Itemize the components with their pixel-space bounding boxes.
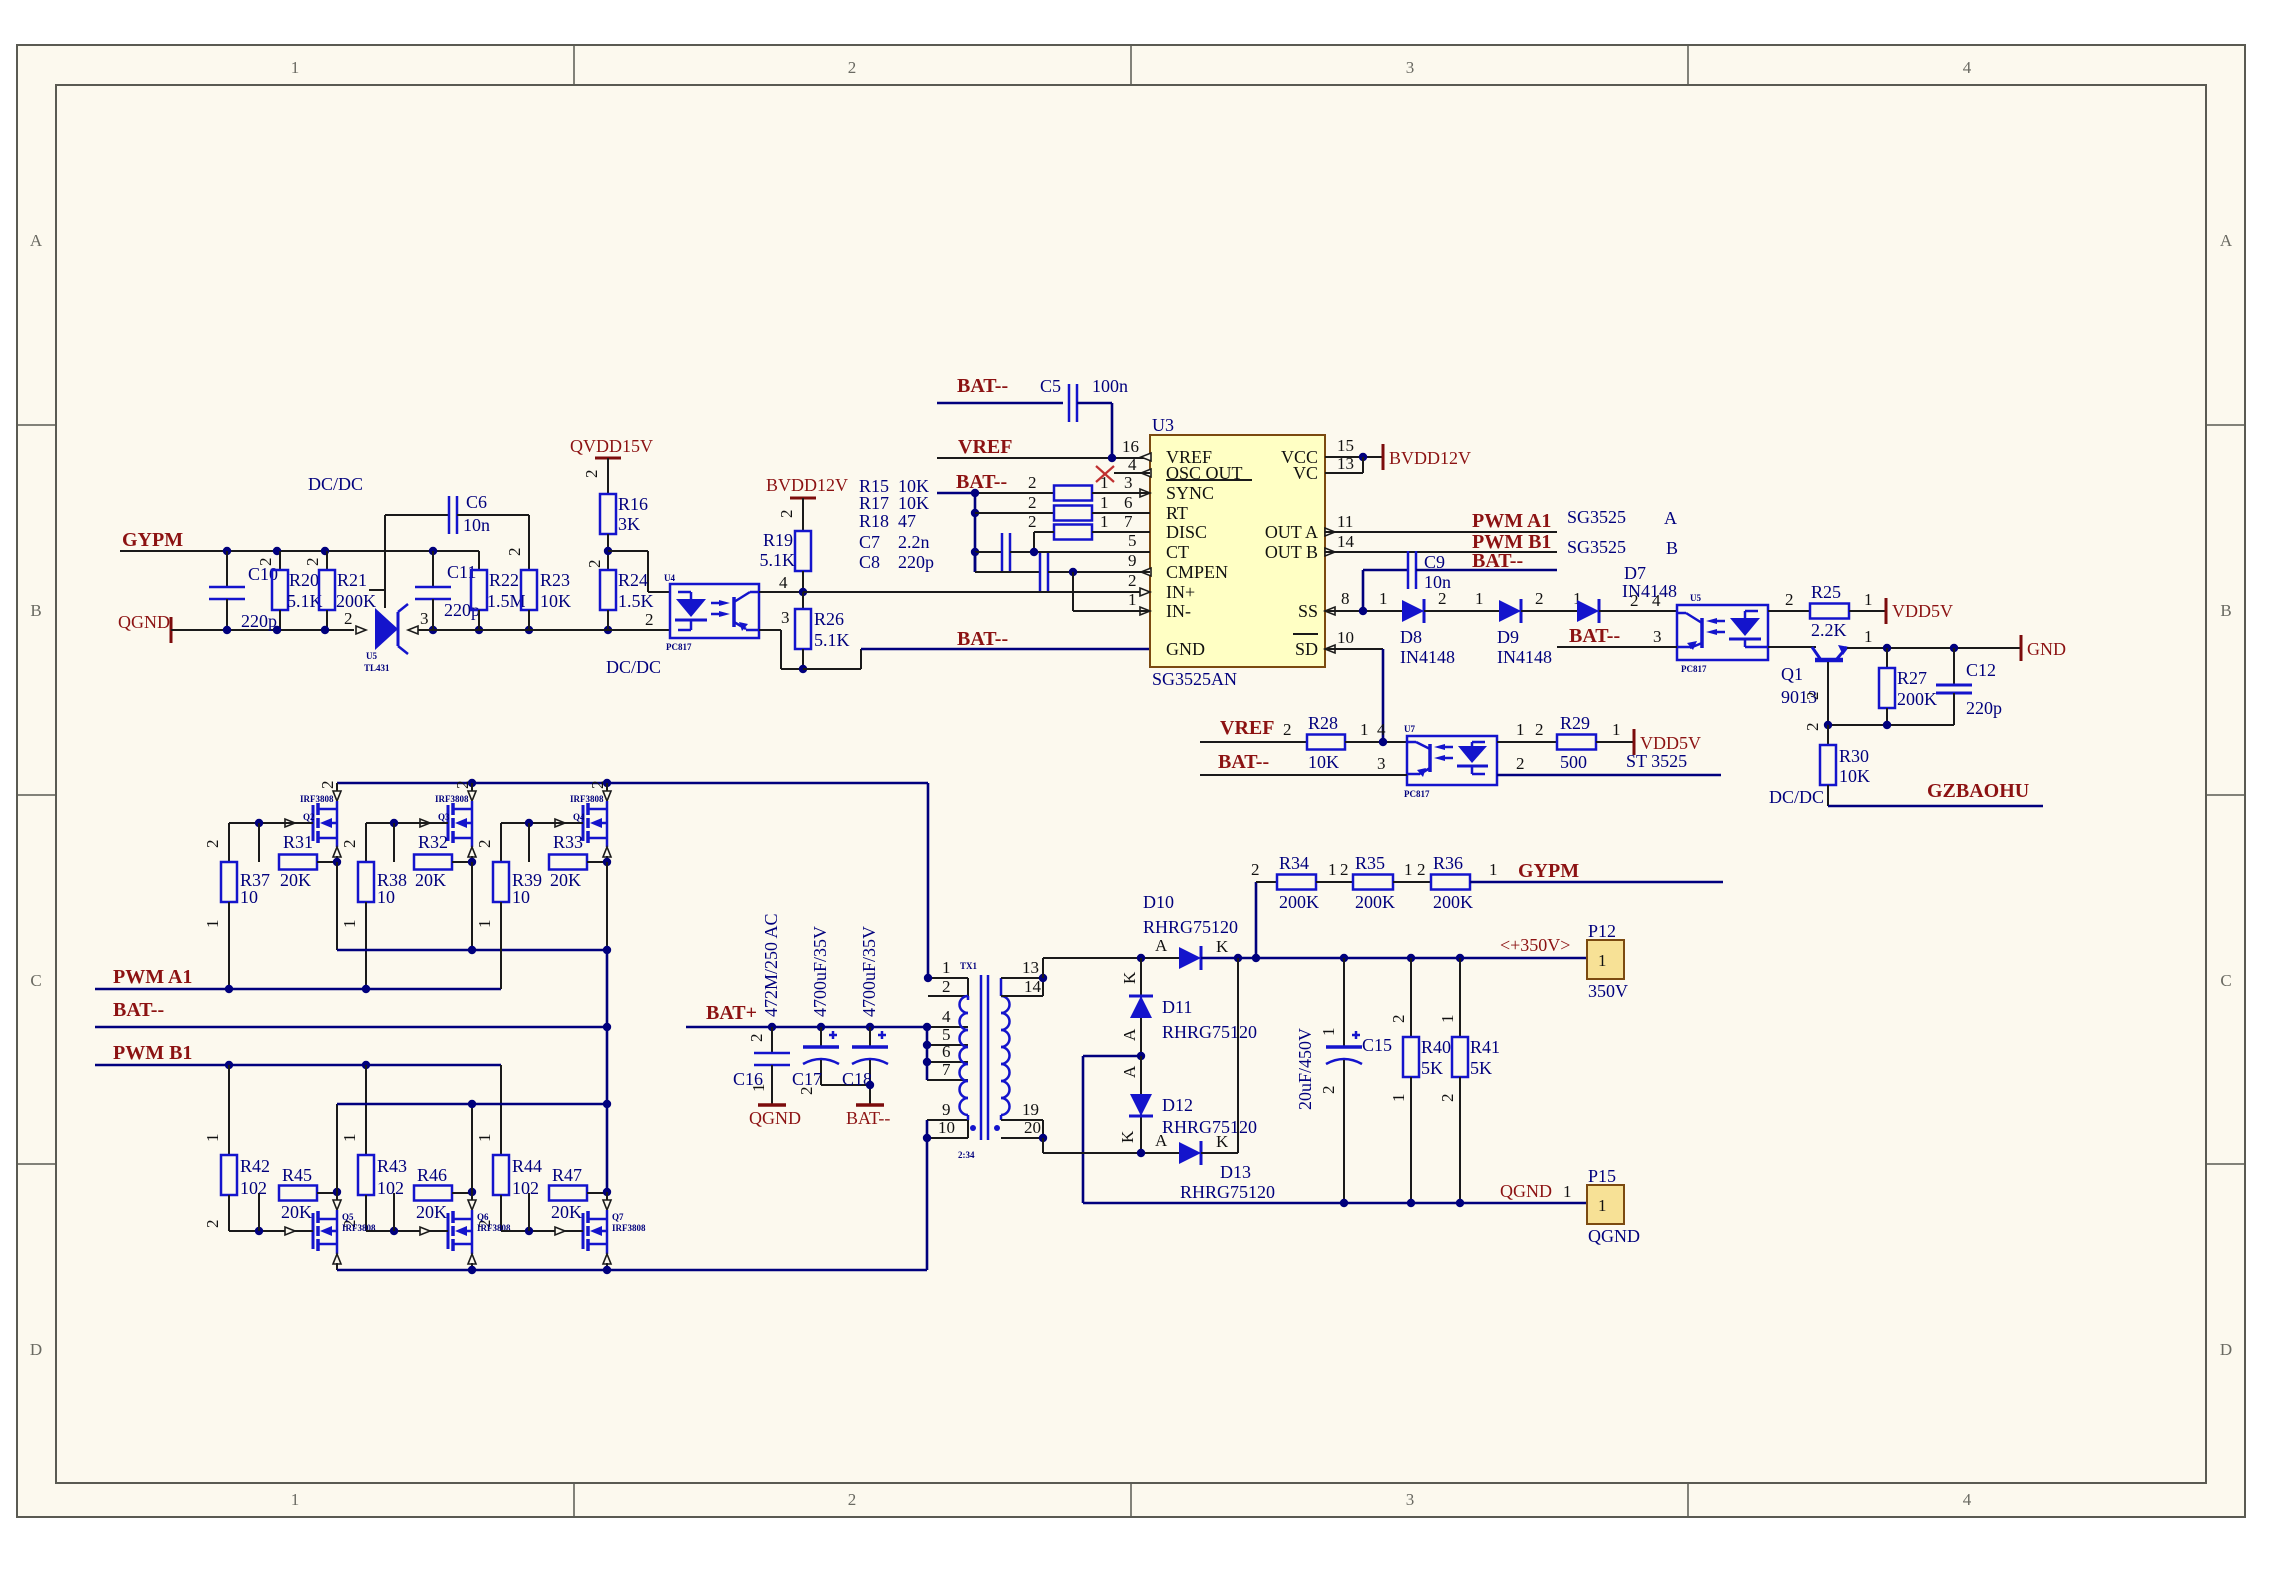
svg-text:13: 13: [1022, 958, 1039, 977]
svg-text:2: 2: [942, 977, 951, 996]
svg-text:1: 1: [1598, 1196, 1607, 1215]
junction dot R16/R24 node: [604, 547, 612, 555]
resistor R29: [1557, 713, 1596, 772]
svg-text:16: 16: [1122, 437, 1139, 456]
svg-text:IRF3808: IRF3808: [300, 794, 334, 804]
svg-text:QGND: QGND: [1588, 1226, 1640, 1246]
optocoupler U5 PC817 (mirrored): [1677, 593, 1768, 674]
wire BAT-- to U3 GND: [803, 649, 1150, 669]
svg-text:20: 20: [1024, 1118, 1041, 1137]
svg-text:Q1: Q1: [1781, 664, 1803, 684]
svg-text:2: 2: [1803, 723, 1822, 732]
resistor R17: [1054, 506, 1092, 521]
svg-text:2: 2: [1417, 860, 1426, 879]
resistor R26: [795, 592, 850, 669]
resistor R27: [1879, 648, 1937, 725]
svg-text:2: 2: [344, 609, 353, 628]
diode D7 IN4148: [1577, 563, 1677, 623]
wire R16 node to opto U4 anode: [585, 551, 670, 592]
svg-text:2: 2: [340, 840, 359, 849]
svg-text:1: 1: [291, 1490, 300, 1509]
resistor R38: [340, 823, 407, 989]
svg-text:20uF/450V: 20uF/450V: [1295, 1028, 1315, 1110]
net label BAT+: [706, 1002, 757, 1024]
svg-text:VREF: VREF: [1220, 717, 1274, 739]
svg-text:D13: D13: [1220, 1162, 1251, 1182]
svg-text:B: B: [30, 601, 41, 620]
wire R34-R35: [1316, 860, 1353, 882]
text DC/DC (upper): [308, 474, 363, 494]
svg-text:5.1K: 5.1K: [760, 550, 796, 570]
svg-text:IN4148: IN4148: [1497, 647, 1552, 667]
svg-text:BAT--: BAT--: [113, 999, 164, 1021]
svg-text:5.1K: 5.1K: [814, 630, 850, 650]
power port VDD5V (R25): [1886, 598, 1953, 624]
svg-text:2.2K: 2.2K: [1811, 620, 1847, 640]
svg-text:PWM A1: PWM A1: [113, 966, 192, 988]
wire BAT-- vertical bus: [603, 950, 611, 1192]
svg-text:200K: 200K: [336, 591, 376, 611]
svg-text:VDD5V: VDD5V: [1892, 601, 1953, 621]
svg-text:<+350V>: <+350V>: [1500, 935, 1570, 955]
net label PWM B1: [113, 1042, 192, 1064]
svg-text:10K: 10K: [1839, 766, 1870, 786]
svg-text:P12: P12: [1588, 921, 1616, 941]
svg-text:SD: SD: [1295, 639, 1318, 659]
BAT-- bus vertical: [971, 489, 979, 572]
svg-text:BAT--: BAT--: [957, 375, 1008, 397]
svg-text:R28: R28: [1308, 713, 1338, 733]
power port BVDD12V (R19): [766, 475, 848, 531]
svg-text:7: 7: [1124, 512, 1133, 531]
wire drain rail (top bank): [337, 779, 928, 978]
wire CMPEN to IN-: [1073, 571, 1150, 611]
svg-text:D: D: [2220, 1340, 2232, 1359]
transistor Q2 IRF3808: [285, 781, 341, 863]
svg-text:R43: R43: [377, 1156, 407, 1176]
gate wire Q6: [366, 1227, 430, 1235]
svg-text:R24: R24: [618, 570, 648, 590]
svg-text:TX1: TX1: [960, 961, 978, 971]
net label BAT-- (C5): [957, 375, 1008, 397]
svg-text:A: A: [1120, 1065, 1139, 1078]
svg-text:5K: 5K: [1470, 1058, 1492, 1078]
svg-text:2: 2: [797, 1087, 816, 1096]
svg-text:R35: R35: [1355, 853, 1385, 873]
svg-text:4: 4: [942, 1007, 951, 1026]
svg-text:BVDD12V: BVDD12V: [1389, 448, 1471, 468]
svg-text:TL431: TL431: [364, 663, 390, 673]
svg-text:1: 1: [340, 1134, 359, 1143]
shunt regulator U5 TL431: [344, 515, 429, 673]
svg-text:200K: 200K: [1279, 892, 1319, 912]
svg-text:1: 1: [1360, 720, 1369, 739]
svg-text:2: 2: [318, 781, 337, 790]
wire PWM A1 row: [95, 902, 501, 993]
svg-text:K: K: [1120, 971, 1139, 984]
svg-text:R40: R40: [1421, 1037, 1451, 1057]
wire BAT-- row (left): [95, 1023, 611, 1031]
svg-text:3: 3: [420, 609, 429, 628]
svg-text:A: A: [1120, 1028, 1139, 1041]
svg-text:10n: 10n: [463, 515, 490, 535]
svg-text:1: 1: [1404, 860, 1413, 879]
svg-text:1: 1: [749, 1084, 768, 1093]
svg-text:1.5K: 1.5K: [618, 591, 654, 611]
gate wire Q2: [229, 819, 295, 827]
svg-text:D11: D11: [1162, 997, 1192, 1017]
svg-text:R45: R45: [282, 1165, 312, 1185]
svg-text:1: 1: [1864, 590, 1873, 609]
svg-text:2: 2: [1438, 1094, 1457, 1103]
net label BAT-- (RC): [956, 471, 1007, 493]
svg-text:2: 2: [747, 1034, 766, 1043]
svg-text:2: 2: [777, 510, 796, 519]
svg-text:PC817: PC817: [666, 642, 692, 652]
svg-text:C17: C17: [792, 1069, 822, 1089]
gate wire Q4: [501, 819, 565, 827]
svg-text:3: 3: [1124, 473, 1133, 492]
svg-text:1: 1: [340, 920, 359, 929]
svg-text:IRF3808: IRF3808: [435, 794, 469, 804]
svg-text:1: 1: [1128, 590, 1137, 609]
svg-text:QGND: QGND: [118, 612, 170, 632]
svg-text:2: 2: [303, 558, 322, 567]
svg-text:10K: 10K: [898, 493, 929, 513]
svg-text:2: 2: [256, 558, 275, 567]
svg-text:100n: 100n: [1092, 376, 1128, 396]
svg-text:R47: R47: [552, 1165, 582, 1185]
svg-text:GYPM: GYPM: [1518, 860, 1579, 882]
wire IN+ row: [803, 591, 1150, 593]
svg-text:13: 13: [1337, 454, 1354, 473]
svg-text:R17: R17: [859, 493, 889, 513]
svg-text:3K: 3K: [618, 514, 640, 534]
wire D9-D7: [1521, 589, 1582, 611]
svg-text:10: 10: [240, 887, 258, 907]
resistor R24: [600, 570, 654, 630]
svg-text:PWM A1: PWM A1: [1472, 510, 1551, 532]
svg-text:1: 1: [1319, 1028, 1338, 1037]
svg-text:1: 1: [1438, 1015, 1457, 1024]
svg-text:2: 2: [585, 560, 604, 569]
svg-text:10: 10: [938, 1118, 955, 1137]
svg-text:VREF: VREF: [958, 436, 1012, 458]
net label VREF: [958, 436, 1012, 458]
svg-text:4700uF/35V: 4700uF/35V: [859, 926, 879, 1017]
resistor R46: [394, 1165, 471, 1231]
svg-text:2.2n: 2.2n: [898, 532, 930, 552]
resistor R20: [256, 551, 323, 630]
svg-text:1: 1: [1489, 860, 1498, 879]
svg-text:2: 2: [1803, 692, 1822, 701]
svg-text:C15: C15: [1362, 1035, 1392, 1055]
resistor R32: [394, 823, 471, 890]
svg-text:20K: 20K: [281, 1202, 312, 1222]
diode D9 IN4148: [1497, 589, 1552, 667]
wire TX1 center-tap bus: [926, 1027, 929, 1080]
svg-text:9: 9: [1128, 551, 1137, 570]
resistor R36: [1431, 853, 1473, 912]
wire RT row: [975, 493, 1133, 513]
svg-text:RHRG75120: RHRG75120: [1143, 917, 1238, 937]
svg-text:14: 14: [1024, 977, 1042, 996]
transistor Q4 IRF3808: [555, 781, 611, 863]
wire PWM B1 row: [95, 1061, 501, 1155]
svg-text:2:34: 2:34: [958, 1150, 975, 1160]
net label PWM A1: [113, 966, 192, 988]
wire SYNC row / BAT-- entry: [937, 473, 1133, 493]
svg-text:DC/DC: DC/DC: [606, 657, 661, 677]
capacitor C8: [975, 551, 1150, 591]
svg-text:R32: R32: [418, 832, 448, 852]
power port QGND (C16): [749, 1105, 801, 1128]
wire BAT-- to U5 pin 3: [1557, 627, 1677, 647]
svg-text:D9: D9: [1497, 627, 1519, 647]
svg-text:A: A: [1155, 936, 1168, 955]
svg-text:1: 1: [1516, 720, 1525, 739]
svg-text:1: 1: [942, 958, 951, 977]
wire VREF row: [937, 437, 1150, 462]
wire QGND rail: [1083, 1199, 1587, 1207]
svg-text:5.1K: 5.1K: [287, 591, 323, 611]
svg-text:9: 9: [942, 1100, 951, 1119]
IC U3 SG3525AN body: [1150, 415, 1325, 689]
svg-text:7: 7: [942, 1060, 951, 1079]
wire Q1 collector node: [1847, 627, 2021, 652]
svg-text:10K: 10K: [1308, 752, 1339, 772]
svg-text:R36: R36: [1433, 853, 1463, 873]
diode D8 IN4148: [1400, 589, 1455, 667]
wire OUT A / net PWM A1: [1325, 507, 1677, 532]
svg-text:20K: 20K: [550, 870, 581, 890]
capacitor C11: [415, 551, 480, 630]
svg-text:1: 1: [475, 920, 494, 929]
svg-text:102: 102: [512, 1178, 539, 1198]
svg-text:2: 2: [1630, 591, 1639, 610]
svg-text:15: 15: [1337, 436, 1354, 455]
net label QGND (rail): [1500, 1181, 1572, 1201]
svg-text:102: 102: [240, 1178, 267, 1198]
resistor R45: [259, 1165, 336, 1231]
svg-text:2: 2: [1340, 860, 1349, 879]
wire TX1 13/14 to rail: [1042, 958, 1044, 978]
svg-text:1: 1: [1100, 473, 1109, 492]
capacitor C7: [975, 531, 1150, 571]
junction dot Q3 source: [468, 858, 476, 950]
svg-text:R44: R44: [512, 1156, 542, 1176]
svg-text:C6: C6: [466, 492, 487, 512]
svg-text:1: 1: [1612, 720, 1621, 739]
svg-text:2: 2: [1389, 1015, 1408, 1024]
svg-text:2: 2: [505, 548, 524, 557]
svg-text:R30: R30: [1839, 746, 1869, 766]
wire U4 collector to IN+ node: [759, 573, 803, 592]
svg-text:RT: RT: [1166, 503, 1188, 523]
svg-text:CT: CT: [1166, 542, 1189, 562]
diode D11 RHRG75120: [1120, 958, 1257, 1056]
wire VC pin 13: [1325, 454, 1363, 473]
svg-text:20K: 20K: [551, 1202, 582, 1222]
wire Q1 emitter node: [1803, 721, 1954, 731]
svg-text:10K: 10K: [540, 591, 571, 611]
wire OUT B / net PWM B1: [1325, 531, 1678, 558]
svg-text:D12: D12: [1162, 1095, 1193, 1115]
svg-text:D8: D8: [1400, 627, 1422, 647]
svg-text:10: 10: [1337, 628, 1354, 647]
svg-text:BAT--: BAT--: [957, 628, 1008, 650]
svg-text:220p: 220p: [241, 611, 277, 631]
wire U7 to R29: [1497, 720, 1557, 742]
svg-text:5: 5: [1128, 531, 1137, 550]
transistor Q6 IRF3808: [420, 1192, 511, 1270]
svg-text:3: 3: [1406, 1490, 1415, 1509]
svg-text:2: 2: [203, 840, 222, 849]
svg-text:3: 3: [1406, 58, 1415, 77]
svg-text:R21: R21: [337, 570, 367, 590]
junction dot Q4 source: [603, 858, 611, 950]
wire BAT-- to U7 pin 3: [1200, 754, 1407, 775]
svg-text:IN+: IN+: [1166, 582, 1195, 602]
junction dots GYPM row: [223, 547, 437, 555]
wire R18 to pin 7: [1092, 531, 1150, 533]
wire SS pin 8: [1325, 589, 1402, 615]
resistor R43: [340, 1065, 407, 1231]
resistor R15: [1054, 486, 1092, 501]
junction dot R26 bottom: [799, 665, 807, 673]
svg-text:14: 14: [1337, 532, 1355, 551]
svg-text:A: A: [30, 231, 43, 250]
wire D11 node to QGND rail: [1083, 1056, 1141, 1203]
diode D13 RHRG75120: [1043, 1131, 1275, 1202]
svg-text:P15: P15: [1588, 1166, 1616, 1186]
svg-text:A: A: [1155, 1131, 1168, 1150]
svg-text:QGND: QGND: [749, 1108, 801, 1128]
svg-text:2: 2: [1028, 473, 1037, 492]
svg-text:8: 8: [1341, 589, 1350, 608]
svg-text:C5: C5: [1040, 376, 1061, 396]
svg-text:VC: VC: [1293, 463, 1318, 483]
net label VREF (R28): [1220, 717, 1274, 739]
svg-text:U4: U4: [664, 573, 675, 583]
svg-text:Q2: Q2: [303, 812, 315, 822]
svg-text:6: 6: [942, 1042, 951, 1061]
svg-text:BAT--: BAT--: [956, 471, 1007, 493]
wire R17 to pin 6: [1092, 512, 1150, 514]
svg-text:C12: C12: [1966, 660, 1996, 680]
svg-text:R34: R34: [1279, 853, 1309, 873]
wire U5 emitter to Q1 base: [1768, 646, 1816, 648]
svg-text:SG3525: SG3525: [1567, 507, 1626, 527]
svg-text:U5: U5: [366, 651, 377, 661]
svg-text:1: 1: [203, 1134, 222, 1143]
net label GYPM: [122, 529, 183, 551]
svg-text:BAT--: BAT--: [846, 1108, 890, 1128]
svg-text:IRF3808: IRF3808: [570, 794, 604, 804]
resistor R40: [1389, 958, 1451, 1203]
wire BAT+ row: [686, 1023, 927, 1031]
svg-text:DC/DC: DC/DC: [1769, 787, 1824, 807]
svg-text:R42: R42: [240, 1156, 270, 1176]
optocoupler U7 PC817 (mirrored): [1404, 724, 1497, 799]
svg-text:CMPEN: CMPEN: [1166, 562, 1228, 582]
svg-text:C: C: [2220, 971, 2231, 990]
resistor R22: [471, 570, 526, 630]
svg-text:SG3525AN: SG3525AN: [1152, 669, 1237, 689]
svg-text:GND: GND: [2027, 639, 2066, 659]
resistor R30: [1820, 725, 1870, 806]
svg-text:D10: D10: [1143, 892, 1174, 912]
svg-text:SS: SS: [1298, 601, 1318, 621]
svg-text:R22: R22: [489, 570, 519, 590]
transistor Q5 IRF3808: [285, 1192, 376, 1270]
net label BAT-- (C9 row): [1472, 550, 1523, 572]
wire R35-R36: [1393, 860, 1431, 882]
svg-text:R16: R16: [618, 494, 648, 514]
resistor R41: [1438, 958, 1500, 1203]
wire source bus (bottom bank): [337, 1138, 927, 1274]
svg-text:3: 3: [1377, 754, 1386, 773]
svg-text:1: 1: [1598, 951, 1607, 970]
svg-text:DC/DC: DC/DC: [308, 474, 363, 494]
svg-text:R20: R20: [289, 570, 319, 590]
wire 350V rail: [1201, 954, 1587, 962]
resistor R47: [529, 1165, 606, 1231]
svg-text:R29: R29: [1560, 713, 1590, 733]
svg-text:C10: C10: [248, 564, 278, 584]
svg-text:R25: R25: [1811, 582, 1841, 602]
wire Q7 drain: [603, 1188, 611, 1196]
svg-text:4: 4: [1128, 455, 1137, 474]
svg-text:DISC: DISC: [1166, 522, 1207, 542]
svg-text:4700uF/35V: 4700uF/35V: [810, 926, 830, 1017]
resistor R37: [203, 823, 270, 989]
svg-text:19: 19: [1022, 1100, 1039, 1119]
net label +350V: [1500, 935, 1570, 955]
capacitor C16 472M/250AC: [733, 913, 790, 1105]
svg-text:RHRG75120: RHRG75120: [1162, 1117, 1257, 1137]
svg-text:R41: R41: [1470, 1037, 1500, 1057]
svg-text:2: 2: [1785, 590, 1794, 609]
svg-text:BVDD12V: BVDD12V: [766, 475, 848, 495]
svg-text:U3: U3: [1152, 415, 1174, 435]
svg-text:1.5M: 1.5M: [487, 591, 526, 611]
diode D12 RHRG75120: [1118, 1056, 1257, 1153]
svg-text:PC817: PC817: [1404, 789, 1430, 799]
svg-text:GND: GND: [1166, 639, 1205, 659]
wire D13 cathode to rail: [1201, 958, 1238, 1153]
resistor R28: [1307, 713, 1345, 772]
svg-text:2: 2: [645, 610, 654, 629]
svg-text:6: 6: [1124, 493, 1133, 512]
svg-text:20K: 20K: [280, 870, 311, 890]
wire QGND row left: [171, 629, 354, 631]
svg-text:2: 2: [1283, 720, 1292, 739]
svg-text:2: 2: [848, 58, 857, 77]
connector P12: [1587, 921, 1628, 1001]
svg-text:4: 4: [1652, 591, 1661, 610]
svg-text:RHRG75120: RHRG75120: [1162, 1022, 1257, 1042]
svg-text:2: 2: [848, 1490, 857, 1509]
U3 pin arrows: [1140, 453, 1335, 653]
svg-text:2: 2: [582, 470, 601, 479]
svg-text:5K: 5K: [1421, 1058, 1443, 1078]
svg-text:R19: R19: [763, 530, 793, 550]
svg-text:A: A: [2220, 231, 2233, 250]
net GZBAOHU: [1769, 780, 2043, 807]
resistor R25: [1810, 582, 1849, 640]
svg-text:OUT A: OUT A: [1265, 522, 1318, 542]
